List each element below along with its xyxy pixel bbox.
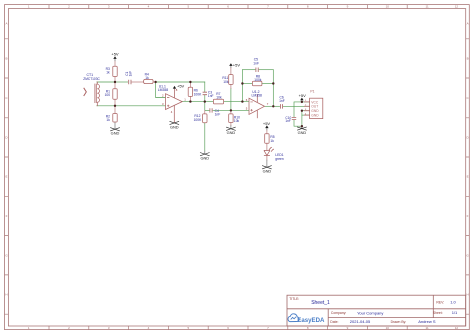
capacitor C1 <box>129 80 131 85</box>
svg-text:green: green <box>275 157 284 161</box>
LED LED1 green <box>264 147 274 156</box>
op-amp U1.2 LM358 <box>246 90 269 118</box>
resistor R1 <box>113 89 117 99</box>
svg-text:Sheet_1: Sheet_1 <box>311 300 330 306</box>
wire P1 GND pin 4 to column <box>302 114 310 116</box>
wire C5 right to right vertical <box>259 69 273 71</box>
wire node A to C1 left <box>115 81 128 83</box>
transformer CT1 ZMCT103C <box>84 82 100 106</box>
wire CT1 secondary bottom to U1.1 pin 3 <box>97 105 166 107</box>
frame zone letters right <box>466 22 469 297</box>
svg-text:10: 10 <box>386 5 390 9</box>
svg-text:GND: GND <box>227 130 236 135</box>
svg-text:10: 10 <box>386 326 390 330</box>
wire P1 GND pin 3 to column <box>302 110 310 112</box>
svg-text:GND: GND <box>170 124 179 129</box>
svg-text:10k: 10k <box>223 80 229 84</box>
pin R4 right to node B <box>153 81 156 83</box>
svg-text:GND: GND <box>311 109 319 113</box>
svg-text:100K: 100K <box>194 118 203 122</box>
svg-text:GND: GND <box>298 130 307 135</box>
C3 R12 output junction <box>204 100 206 102</box>
pin6 node junction <box>241 100 243 102</box>
pin R5 top <box>266 130 268 134</box>
svg-text:1nF: 1nF <box>208 94 214 98</box>
svg-text:P1: P1 <box>310 90 314 94</box>
wire C4 right to pin5 node and U1.2 pin 5 <box>213 109 249 111</box>
frame ticks right <box>466 39 470 314</box>
svg-text:1nF: 1nF <box>215 113 221 117</box>
svg-text:1k: 1k <box>145 76 149 80</box>
pin R1 bottom <box>114 99 116 106</box>
op-amp U1.1 LM358 <box>158 84 187 123</box>
frame ticks bottom <box>49 326 407 330</box>
svg-text:GND: GND <box>263 169 272 174</box>
node B junction <box>154 81 156 83</box>
wire R12 column top <box>204 102 206 111</box>
wire R7 right to U1.2 pin 6 <box>224 101 249 103</box>
svg-text:REV:: REV: <box>436 300 444 304</box>
wire R8 row left <box>242 83 252 85</box>
component pin segments <box>115 61 267 160</box>
svg-text:1k: 1k <box>270 139 274 143</box>
+5V flag above R5 LED branch <box>265 125 268 128</box>
wire C4 row left <box>205 109 209 111</box>
stem GND P1 <box>301 126 303 129</box>
svg-text:10k: 10k <box>216 96 222 100</box>
pin R11 top <box>230 68 232 75</box>
+5V flag above R3 <box>113 56 116 59</box>
pin R6 top <box>189 82 191 87</box>
capacitor C5 <box>256 68 258 73</box>
svg-text:Your Company: Your Company <box>357 310 383 315</box>
wire P1 ground column <box>301 111 303 126</box>
frame ticks left <box>5 39 9 314</box>
svg-text:1nF: 1nF <box>279 99 285 103</box>
stem +5V R11 <box>230 66 232 67</box>
connector P1 <box>304 90 323 119</box>
svg-text:1k: 1k <box>106 71 110 75</box>
svg-text:12: 12 <box>455 326 459 330</box>
pin R5 bottom to LED1 anode <box>266 143 268 150</box>
svg-text:+5V: +5V <box>263 121 271 126</box>
svg-text:100k: 100k <box>254 78 262 82</box>
svg-text:Drawn By:: Drawn By: <box>391 320 407 324</box>
pin R12 top <box>204 110 206 114</box>
pin R3 top <box>114 61 116 67</box>
capacitor C10 <box>292 117 296 119</box>
svg-text:+5V: +5V <box>111 52 119 57</box>
ground flag under U1.1 pin 4 <box>170 121 180 124</box>
stem GND R2 <box>114 122 116 129</box>
resistor R4 <box>144 79 154 83</box>
R8 left junction <box>241 82 243 84</box>
stem GND LED1 <box>266 160 268 167</box>
svg-text:Andrew S: Andrew S <box>418 319 436 324</box>
wire U1.2 feedback top rail to C5 <box>242 69 255 71</box>
svg-text:F: F <box>467 214 469 218</box>
svg-text:LM358: LM358 <box>158 88 168 92</box>
svg-text:GND: GND <box>200 156 209 161</box>
+5V flag above R11 <box>229 63 232 66</box>
resistor R12 <box>203 114 207 123</box>
wire U1.2 feedback right vertical <box>272 70 274 107</box>
svg-text:+5V: +5V <box>299 93 307 98</box>
ground flag under R10 <box>226 127 236 130</box>
svg-text:A: A <box>5 22 7 26</box>
C10 ground junction <box>301 125 303 127</box>
wire C3 top stub <box>204 82 206 92</box>
pin C1 to R4 <box>132 81 144 83</box>
P1 GND pin junction <box>301 110 303 112</box>
svg-text:TITLE:: TITLE: <box>289 297 299 301</box>
svg-text:12: 12 <box>455 5 459 9</box>
svg-text:LM358: LM358 <box>252 94 262 98</box>
resistor R8 <box>252 81 262 86</box>
svg-text:OUT: OUT <box>311 105 318 109</box>
R6 top junction <box>189 81 191 83</box>
wire top feedback rail node B to C3 column <box>156 81 205 83</box>
U1.2 output junction <box>272 105 274 107</box>
svg-text:H: H <box>467 293 469 297</box>
svg-text:1.0: 1.0 <box>450 299 456 304</box>
svg-text:VCC: VCC <box>311 100 319 104</box>
svg-text:1nF: 1nF <box>285 119 291 123</box>
pin R6 bottom <box>189 96 191 101</box>
stem +5V P1 <box>301 100 303 102</box>
R8 right junction <box>272 82 274 84</box>
resistor R7 <box>213 99 223 104</box>
net flag stems <box>115 59 302 167</box>
stem +5V R5 <box>266 128 268 130</box>
svg-text:10k: 10k <box>234 119 240 123</box>
EasyEDA logo <box>288 314 325 324</box>
resistor R5 <box>265 134 269 144</box>
title block texts <box>289 297 444 324</box>
svg-text:2021-04-05: 2021-04-05 <box>350 319 371 324</box>
svg-text:1nF: 1nF <box>253 61 259 65</box>
svg-text:GND: GND <box>311 114 319 118</box>
capacitor C4 <box>210 108 212 112</box>
+5V flag above P1 <box>300 98 303 101</box>
wire U1.1 output rail to R7 <box>182 101 213 103</box>
pin5 node junction <box>230 109 232 111</box>
svg-text:F: F <box>6 214 8 218</box>
wire U1.2 output to C6 <box>265 105 280 107</box>
svg-text:H: H <box>5 293 7 297</box>
frame zone numbers bottom <box>28 326 459 330</box>
wire VCC node to P1 VCC pin <box>302 101 310 103</box>
svg-text:Company:: Company: <box>331 311 347 315</box>
resistor R11 <box>229 75 233 85</box>
svg-text:11: 11 <box>426 5 429 9</box>
svg-text:11: 11 <box>426 326 429 330</box>
svg-text:ZMCT103C: ZMCT103C <box>83 77 100 81</box>
wire C6 right to P1 OUT pin <box>283 105 309 107</box>
wire node B down to U1.1 pin 2 <box>156 82 166 98</box>
resistor R6 <box>188 87 192 96</box>
svg-text:1k: 1k <box>106 118 110 122</box>
ground flag under LED1 <box>262 166 272 169</box>
stem +5V R3 <box>114 59 116 61</box>
stem GND R12 <box>204 151 206 154</box>
ground flag under P1 <box>297 127 307 130</box>
svg-text:1nF: 1nF <box>129 71 133 77</box>
wire R12 bottom to GND <box>204 123 206 151</box>
frame ticks top <box>49 5 407 9</box>
pin R11 bottom <box>230 84 232 88</box>
title block <box>287 295 466 326</box>
pin R3 bottom <box>114 77 116 83</box>
svg-text:1/1: 1/1 <box>452 310 458 315</box>
capacitor C3 <box>203 92 207 95</box>
svg-text:GND: GND <box>111 130 120 135</box>
node A junction <box>114 81 116 83</box>
wire VCC node left and down to C10 <box>294 102 302 117</box>
svg-text:E: E <box>467 175 469 179</box>
svg-text:+5V: +5V <box>233 62 241 67</box>
wire C10 bottom to GND node <box>294 120 302 126</box>
wire C3 bottom stub <box>204 95 206 102</box>
resistor R2 <box>113 114 117 123</box>
frame zone numbers top <box>28 5 459 9</box>
pin R10 top <box>230 110 232 114</box>
svg-text:B: B <box>5 56 7 60</box>
R6 bottom output junction <box>189 100 191 102</box>
frame zone letters left <box>5 22 8 297</box>
wire R11 bottom to pin5 node <box>230 88 232 110</box>
stem GND R10 <box>230 126 232 129</box>
svg-text:100K: 100K <box>194 93 203 97</box>
pin R10 bottom <box>230 123 232 126</box>
svg-text:Sheet:: Sheet: <box>433 311 443 315</box>
pin R2 top <box>114 106 116 114</box>
svg-text:EasyEDA: EasyEDA <box>297 317 325 324</box>
svg-text:A: A <box>467 22 469 26</box>
svg-text:+5V: +5V <box>177 84 185 89</box>
wire R8 row right <box>262 83 273 85</box>
resistor R3 <box>113 66 117 76</box>
P1 VCC junction <box>301 101 303 103</box>
wire CT1 secondary top to node A <box>97 81 115 83</box>
resistor R10 <box>229 114 233 123</box>
pin LED1 cathode <box>266 155 268 160</box>
svg-text:100: 100 <box>105 93 111 97</box>
svg-text:E: E <box>5 175 7 179</box>
svg-text:B: B <box>467 56 469 60</box>
capacitor C6 <box>281 104 283 109</box>
ground flag under R12 <box>200 153 210 156</box>
+5V flag at U1.1 pin 8 <box>173 86 176 89</box>
svg-text:Date:: Date: <box>330 320 338 324</box>
wire U1.2 feedback left vertical <box>241 70 243 102</box>
ground flag under R2 <box>110 128 120 131</box>
bottom secondary node junction <box>114 105 116 107</box>
pin R1 top <box>114 82 116 89</box>
